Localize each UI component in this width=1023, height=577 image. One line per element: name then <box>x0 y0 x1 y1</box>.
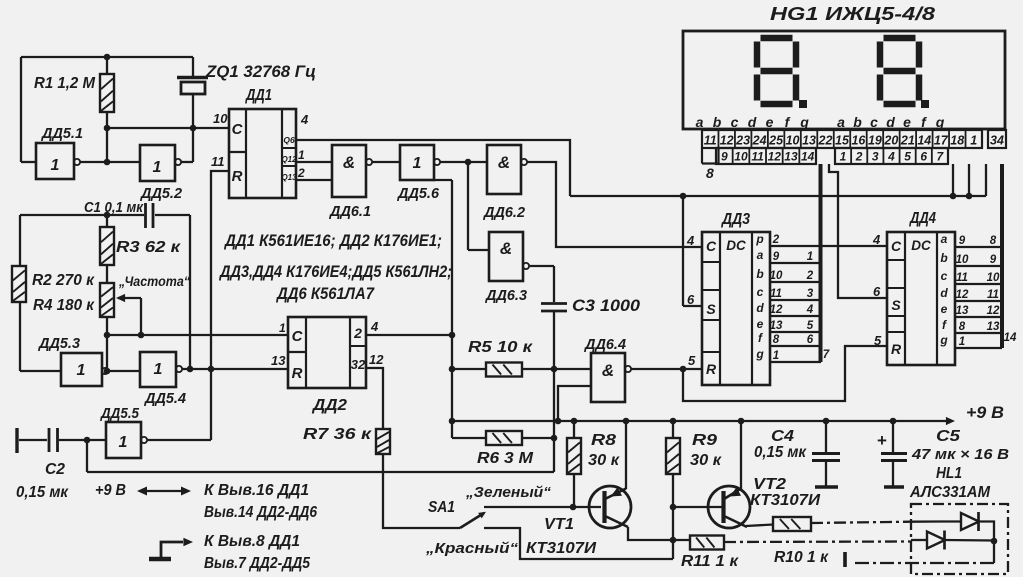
svg-text:C1 0,1 мк: C1 0,1 мк <box>84 200 144 216</box>
wire: R7 to SA1 <box>383 454 460 528</box>
inverter DD5.1 <box>36 143 80 179</box>
svg-text:34: 34 <box>990 134 1004 148</box>
pin 4 of DD3 <box>686 233 695 248</box>
wire: VT2 base <box>673 506 722 508</box>
pin 10 of DD1 <box>213 111 228 126</box>
pin 6 of DD3 <box>687 292 695 307</box>
svg-text:e: e <box>903 114 911 130</box>
svg-text:ДД1 К561ИЕ16; ДД2 К176ИЕ1;: ДД1 К561ИЕ16; ДД2 К176ИЕ1; <box>223 232 442 250</box>
svg-text:S: S <box>891 297 901 313</box>
svg-text:ДД6.3: ДД6.3 <box>484 288 527 304</box>
svg-text:VT1: VT1 <box>544 516 574 533</box>
wire: display pin11 tall cell <box>702 148 719 164</box>
svg-text:5: 5 <box>807 320 814 332</box>
label DD5.5 <box>99 406 140 422</box>
svg-text:HG1 ИЖЦ5-4/8: HG1 ИЖЦ5-4/8 <box>770 4 935 24</box>
label C1 0,1 mk <box>84 200 144 216</box>
inverter DD5.4 <box>140 352 182 387</box>
display segment letters digit 2 <box>837 114 945 130</box>
svg-text:19: 19 <box>868 134 882 148</box>
svg-text:1: 1 <box>119 434 128 451</box>
svg-text:22: 22 <box>818 134 833 148</box>
label R8 value <box>588 452 620 469</box>
svg-text:К Выв.8 ДД1: К Выв.8 ДД1 <box>204 533 300 550</box>
svg-text:Выв.14 ДД2-ДД6: Выв.14 ДД2-ДД6 <box>204 504 317 521</box>
wire: red contact run <box>484 528 673 559</box>
svg-text:10: 10 <box>770 270 783 282</box>
label C5 <box>936 428 960 445</box>
pin 4 of DD4 <box>872 232 881 247</box>
node: crystal bottom junction <box>190 125 197 132</box>
label DD5.1 <box>40 126 83 142</box>
pin 5 of DD4 <box>874 333 882 348</box>
wire: display pin34 bus <box>1000 164 1004 348</box>
svg-text:e: e <box>941 302 948 316</box>
svg-text:13: 13 <box>956 305 969 317</box>
svg-text:13: 13 <box>770 320 783 332</box>
wire: display pin1 drop <box>968 164 970 196</box>
wire: R10 to green LED <box>811 522 940 524</box>
svg-text:12: 12 <box>720 134 734 148</box>
svg-text:C: C <box>292 328 304 345</box>
svg-text:30 к: 30 к <box>690 452 722 469</box>
svg-text:ДД2: ДД2 <box>311 397 348 414</box>
svg-text:d: d <box>886 114 895 130</box>
svg-text:ДД5.2: ДД5.2 <box>139 186 182 202</box>
display pin 8 label <box>706 165 714 181</box>
svg-text:32: 32 <box>351 357 366 372</box>
svg-text:b: b <box>853 114 862 130</box>
svg-text:R11 1 к: R11 1 к <box>681 553 739 570</box>
label DD6.2 <box>482 205 525 221</box>
pin 6 of DD4 <box>873 284 881 299</box>
svg-text:b: b <box>713 114 722 130</box>
svg-text:C: C <box>232 121 244 138</box>
svg-text:C: C <box>891 238 902 254</box>
svg-text:g: g <box>755 347 764 361</box>
svg-text:a: a <box>757 248 764 262</box>
svg-text:14: 14 <box>1004 332 1017 344</box>
svg-text:6: 6 <box>807 334 814 346</box>
svg-text:1: 1 <box>959 336 965 348</box>
svg-text:Q6: Q6 <box>283 135 295 145</box>
svg-text:c: c <box>757 285 764 299</box>
label +9 V right <box>966 404 1004 422</box>
wire: VT2 emitter <box>740 421 742 489</box>
node: R1 to clock wire junction <box>104 125 111 132</box>
svg-text:9: 9 <box>721 150 728 164</box>
label DD4 <box>908 210 936 227</box>
svg-text:4: 4 <box>872 232 881 247</box>
wire: display pin15 jog to DD4 S <box>829 164 888 298</box>
svg-text:ДД4: ДД4 <box>908 210 936 227</box>
text: K vyv.16 DD1 <box>204 482 309 499</box>
svg-text:d: d <box>748 114 757 130</box>
display pin row <box>702 130 1006 148</box>
label DD5.2 <box>139 186 182 202</box>
pin 5 of DD3 <box>688 353 696 368</box>
label R10 1 k <box>774 549 829 566</box>
svg-text:11: 11 <box>704 134 717 148</box>
svg-text:ДД5.3: ДД5.3 <box>37 336 80 352</box>
svg-text:g: g <box>799 114 809 130</box>
svg-text:ДД6.2: ДД6.2 <box>482 205 525 221</box>
wires: DD4 output ladder <box>955 235 1017 348</box>
resistor R9 <box>666 421 680 474</box>
svg-text:C: C <box>706 238 717 254</box>
wire: DD1 pin1 to DD6.1 <box>296 161 332 163</box>
wire: DD6.3 out to C3 <box>529 266 554 302</box>
inverter DD5.5 <box>106 422 147 458</box>
svg-text:18: 18 <box>950 134 964 148</box>
svg-text:ДД5.5: ДД5.5 <box>99 406 140 422</box>
resistor R10 <box>773 517 811 531</box>
inverter DD5.3 <box>61 353 108 386</box>
potentiometer R4 <box>100 265 141 371</box>
label Chastota <box>118 274 190 289</box>
resistor R2 <box>12 215 61 371</box>
svg-text:15: 15 <box>835 134 850 148</box>
wire: C1 right leg <box>187 215 194 372</box>
resistor R5 <box>452 363 591 377</box>
capacitor C2 <box>17 428 106 453</box>
decoder DD3 body <box>702 232 770 385</box>
svg-text:c: c <box>731 114 739 130</box>
wire: LED common return <box>845 541 994 567</box>
label R2 270 k <box>32 272 95 289</box>
node: C3 bottom junction <box>551 366 558 373</box>
wire: gate input tie down to DD6.3 <box>468 162 489 250</box>
counter DD2 body <box>288 317 366 388</box>
symbol: double arrow to supply note <box>137 487 191 496</box>
svg-text:14: 14 <box>801 150 815 164</box>
svg-text:К Выв.16 ДД1: К Выв.16 ДД1 <box>204 482 309 499</box>
svg-text:R10 1 к: R10 1 к <box>774 549 829 566</box>
svg-text:R: R <box>232 168 243 185</box>
svg-text:3: 3 <box>807 288 814 300</box>
wire: DD6.2 out to DD3 clock <box>527 162 702 247</box>
svg-text:d: d <box>940 286 948 300</box>
text: vyv.7 DD2-DD5 <box>204 555 310 572</box>
capacitor C1 <box>20 203 190 228</box>
svg-text:DC: DC <box>911 238 931 253</box>
svg-text:6: 6 <box>687 292 695 307</box>
resistor R11 <box>690 536 724 550</box>
capacitor C5 <box>877 421 907 487</box>
label R4 180 k <box>33 297 95 314</box>
svg-text:1: 1 <box>154 361 163 378</box>
svg-text:0,15 мк: 0,15 мк <box>16 484 69 501</box>
pin 4 of DD2 <box>370 319 379 334</box>
svg-text:R9: R9 <box>692 432 717 449</box>
svg-text:12: 12 <box>956 289 969 301</box>
svg-text:ДД5.1: ДД5.1 <box>40 126 83 142</box>
label R9 <box>692 432 717 449</box>
label DD5.6 <box>396 186 440 202</box>
wire: DD5.5 output to reset line <box>147 439 211 441</box>
svg-text:0,15 мк: 0,15 мк <box>754 444 807 461</box>
wire: display pin18 drop <box>952 164 954 196</box>
label R3 62 k <box>116 239 181 256</box>
svg-text:2: 2 <box>772 234 780 246</box>
svg-text:e: e <box>757 317 764 331</box>
capacitor C3 <box>541 304 567 473</box>
label R8 <box>591 432 616 449</box>
svg-text:2: 2 <box>353 325 362 341</box>
pin 12 of DD2 <box>369 352 384 367</box>
svg-text:1: 1 <box>807 251 813 263</box>
svg-text:11: 11 <box>211 154 225 169</box>
svg-text:1: 1 <box>773 350 779 362</box>
wire: DD5.2 output to DD1 clock <box>107 127 229 129</box>
svg-text:13: 13 <box>784 150 798 164</box>
wire: DD1 pin11 reset line <box>211 171 229 440</box>
svg-text:&: & <box>498 153 510 172</box>
node: rail junctions <box>571 418 897 425</box>
svg-text:10: 10 <box>956 254 969 266</box>
label VT1 <box>544 516 574 533</box>
svg-text:„Зеленый“: „Зеленый“ <box>465 484 552 501</box>
pin 13 of DD2 <box>271 353 286 368</box>
svg-text:g: g <box>935 114 945 130</box>
pin 4 of DD1 <box>300 112 309 127</box>
svg-text:ДД1: ДД1 <box>244 87 272 104</box>
svg-text:1: 1 <box>153 159 162 176</box>
svg-text:R6 3 М: R6 3 М <box>477 450 534 467</box>
wire: VT1 emitter <box>625 421 627 489</box>
svg-text:8: 8 <box>959 321 966 333</box>
text: vyv.14 DD2-DD6 <box>204 504 317 521</box>
svg-text:11: 11 <box>987 289 999 301</box>
wire: DD5.3 out to DD5.4 in <box>108 370 140 372</box>
label Zelenyi <box>465 484 552 501</box>
svg-text:7: 7 <box>823 349 830 361</box>
wire: DD6.1 out to DD5.6 <box>372 161 400 163</box>
wire: DD5.4 out to DD2 R <box>182 368 288 370</box>
svg-text:1: 1 <box>298 148 305 162</box>
svg-text:21: 21 <box>900 134 915 148</box>
svg-text:23: 23 <box>735 134 750 148</box>
pin 2 of DD1 <box>297 166 305 180</box>
decoder DD4 body <box>887 232 955 365</box>
node: DD5.3 output junction <box>104 368 111 375</box>
wire: VT1 collector to R11 <box>628 527 690 540</box>
wire: +9V rail <box>452 417 955 425</box>
label R11 1 k <box>681 553 739 570</box>
svg-text:25: 25 <box>768 134 784 148</box>
label VT2 <box>753 476 786 493</box>
svg-text:1: 1 <box>970 134 977 148</box>
svg-text:R: R <box>891 341 902 357</box>
pin 1 of DD2 <box>279 321 286 335</box>
resistor R7 <box>376 429 390 454</box>
svg-text:12: 12 <box>770 304 783 316</box>
svg-text:11: 11 <box>751 150 764 164</box>
svg-text:c: c <box>941 269 948 283</box>
resistor R3 <box>100 215 114 265</box>
svg-text:ДД5.6: ДД5.6 <box>396 186 440 202</box>
wire: oscillator out to DD2 C <box>107 334 288 336</box>
text: parts list line 2 <box>218 263 452 281</box>
svg-text:a: a <box>941 232 948 246</box>
diode HL1.2 <box>911 531 994 550</box>
wire: DD5.1 out to DD5.2 in <box>80 161 140 163</box>
svg-text:4: 4 <box>370 319 379 334</box>
svg-text:b: b <box>940 251 947 265</box>
label +9 V left <box>95 482 126 499</box>
label HL1 type <box>909 484 991 501</box>
switch SA1 <box>460 512 486 528</box>
svg-text:9: 9 <box>773 251 780 263</box>
inverter DD5.2 <box>140 145 181 181</box>
svg-text:Q13: Q13 <box>281 173 297 182</box>
svg-text:11: 11 <box>770 288 782 300</box>
svg-text:1: 1 <box>51 157 60 174</box>
svg-text:КТ3107И: КТ3107И <box>526 540 597 557</box>
wire: +9V bottom distribution <box>87 440 554 472</box>
svg-text:R2 270 к: R2 270 к <box>32 272 95 289</box>
label C2 <box>45 461 65 478</box>
label VT2 type <box>750 492 821 509</box>
svg-text:&: & <box>602 361 614 380</box>
svg-text:17: 17 <box>934 134 949 148</box>
svg-text:a: a <box>696 114 704 130</box>
svg-text:VT2: VT2 <box>753 476 786 493</box>
svg-text:C5: C5 <box>936 428 960 445</box>
crystal ZQ1 <box>177 57 208 162</box>
inverter DD5.6 <box>400 145 440 180</box>
wire: DD2 pin4 output run <box>366 180 455 438</box>
nand gate DD6.1 <box>332 145 372 197</box>
wire: VT2 collector to R10 <box>746 525 773 527</box>
svg-text:3: 3 <box>872 150 879 164</box>
wire: VT2 base column <box>670 474 677 559</box>
svg-text:g: g <box>939 333 948 347</box>
svg-text:e: e <box>766 114 774 130</box>
resistor R8 <box>567 421 581 507</box>
label DD6.1 <box>328 204 371 220</box>
label C2 value <box>16 484 69 501</box>
svg-text:R1 1,2 М: R1 1,2 М <box>34 75 96 92</box>
transistor VT1 <box>589 486 631 528</box>
svg-text:12: 12 <box>987 305 1000 317</box>
svg-text:ДД5.4: ДД5.4 <box>143 391 186 407</box>
wire: oscillator loop top and left <box>21 57 193 162</box>
svg-text:4: 4 <box>887 150 895 164</box>
svg-text:4: 4 <box>686 233 695 248</box>
label C3 1000 <box>572 297 641 315</box>
svg-text:10: 10 <box>987 272 1000 284</box>
text: parts list line 1 <box>223 232 442 250</box>
svg-text:КТ3107И: КТ3107И <box>750 492 821 509</box>
label R7 36 k <box>303 426 372 443</box>
svg-text:R: R <box>706 361 717 377</box>
display digit 1 <box>757 38 796 104</box>
transistor VT2 <box>708 486 750 528</box>
svg-text:&: & <box>343 153 355 172</box>
node: LED common junction <box>991 538 998 545</box>
label ZQ1 32768 Hz <box>205 62 316 81</box>
svg-text:4: 4 <box>300 112 309 127</box>
wire: DD6.4 second input <box>555 386 591 424</box>
svg-text:20: 20 <box>883 134 898 148</box>
wire: seconds line y196 <box>570 164 986 199</box>
label VT1 type <box>526 540 597 557</box>
ground symbol <box>149 538 193 559</box>
wire: DD2 pin12 to R7 <box>366 368 383 429</box>
label R9 value <box>690 452 722 469</box>
display digit 1 decimal point <box>799 100 807 108</box>
svg-text:C3 1000: C3 1000 <box>572 297 641 315</box>
label C4 <box>771 428 794 445</box>
label C5 value <box>911 446 1009 463</box>
label C4 value <box>754 444 807 461</box>
wire: green contact to VT1 base <box>484 504 601 511</box>
label DD3 <box>720 211 750 228</box>
svg-text:Q12: Q12 <box>281 155 297 164</box>
svg-text:c: c <box>870 114 878 130</box>
svg-text:8: 8 <box>706 165 714 181</box>
svg-text:10: 10 <box>213 111 228 126</box>
svg-text:a: a <box>837 114 845 130</box>
svg-text:ДД6.4: ДД6.4 <box>583 337 626 353</box>
svg-text:АЛС331АМ: АЛС331АМ <box>909 484 991 501</box>
wire: DD3 S feed <box>683 196 702 306</box>
svg-text:5: 5 <box>688 353 696 368</box>
svg-text:1: 1 <box>413 155 422 172</box>
node: R1 top junction <box>104 54 111 61</box>
svg-text:+9 В: +9 В <box>95 482 126 499</box>
label HL1 <box>936 465 962 482</box>
svg-text:13: 13 <box>271 353 286 368</box>
svg-text:16: 16 <box>851 134 866 148</box>
svg-text:ДД6.1: ДД6.1 <box>328 204 371 220</box>
label DD6.3 <box>484 288 527 304</box>
svg-text:13: 13 <box>987 321 1000 333</box>
wire: DD6.4 out to DD3/DD4 reset <box>631 346 888 401</box>
svg-text:9: 9 <box>990 254 997 266</box>
svg-text:R4 180 к: R4 180 к <box>33 297 95 314</box>
svg-text:2: 2 <box>806 270 814 282</box>
svg-text:4: 4 <box>806 304 814 316</box>
svg-text:R8: R8 <box>591 432 616 449</box>
display digit 2 <box>880 38 919 104</box>
wire: display pin22 bus <box>819 164 823 362</box>
svg-text:„Красный“: „Красный“ <box>425 540 519 557</box>
svg-text:ДД3: ДД3 <box>720 211 750 228</box>
label Krasnyi <box>425 540 519 557</box>
svg-text:5: 5 <box>874 333 882 348</box>
svg-text:12: 12 <box>369 352 384 367</box>
text: parts list line 3 <box>275 285 375 303</box>
svg-text:C4: C4 <box>771 428 794 445</box>
svg-text:&: & <box>500 239 512 258</box>
counter DD1 body <box>229 109 297 198</box>
display HG1 outline <box>683 31 1005 129</box>
label DD2 <box>311 397 348 414</box>
svg-text:11: 11 <box>956 272 968 284</box>
svg-text:+9 В: +9 В <box>966 404 1004 422</box>
svg-text:9: 9 <box>959 235 966 247</box>
nand gate DD6.4 <box>591 353 631 402</box>
nand gate DD6.3 <box>489 232 529 281</box>
svg-text:R7 36 к: R7 36 к <box>303 426 372 443</box>
svg-text:14: 14 <box>917 134 931 148</box>
svg-text:6: 6 <box>920 150 927 164</box>
svg-text:HL1: HL1 <box>936 465 962 482</box>
node: reset line junction <box>208 366 215 373</box>
text: K vyv.8 DD1 <box>204 533 300 550</box>
